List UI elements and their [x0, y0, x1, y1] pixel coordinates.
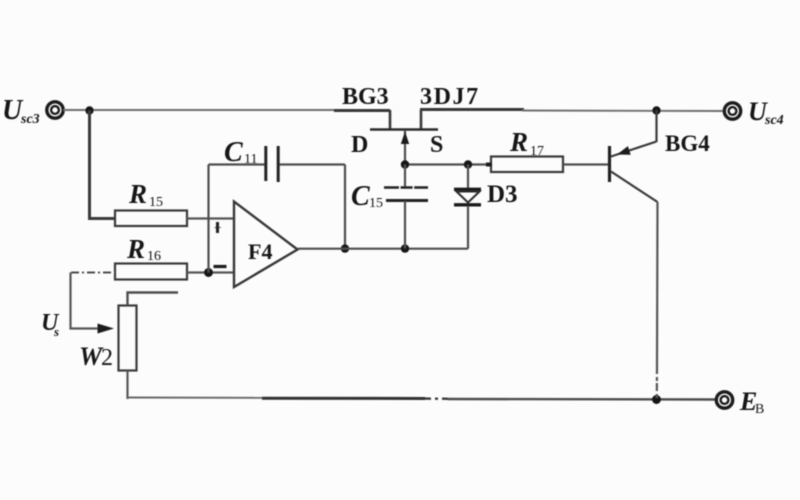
transistor BG3 drain lead [389, 110, 392, 130]
label C15 [351, 181, 383, 212]
capacitor C15 bottom stub [404, 201, 406, 249]
label Usc4 [748, 97, 784, 128]
transistor BG3 gate arrow [401, 132, 409, 145]
diode D3 cathode bar [454, 203, 481, 206]
terminal Usc3 [47, 102, 63, 118]
transistor BG4 emitter diagonal [611, 142, 657, 157]
wire top rail right (source to Usc4) [420, 110, 724, 112]
svg-text:C: C [351, 181, 370, 212]
svg-text:D: D [351, 132, 368, 158]
transistor BG3 channel bar [370, 128, 438, 131]
svg-text:15: 15 [149, 195, 163, 210]
wire bottom rail to EB [128, 398, 716, 400]
node BG4 emitter junction on rail [652, 106, 660, 114]
wire S node to R17 [405, 163, 491, 165]
wire top rail left (Usc3 to BG3 drain) [64, 109, 391, 112]
svg-text:S: S [430, 132, 443, 158]
terminal EB [716, 392, 732, 408]
transistor BG4 collector drop to rail [656, 202, 659, 399]
wire op-amp output line [298, 248, 469, 250]
node gate junction [401, 160, 409, 168]
svg-text:R: R [509, 127, 528, 157]
transistor BG4 emitter vertical to rail [655, 110, 657, 142]
label R17 [509, 127, 544, 159]
label - input [214, 265, 227, 268]
node feedback-output junction [341, 244, 349, 252]
transistor BG4 collector diagonal [611, 172, 658, 203]
label EB [739, 387, 764, 417]
svg-text:R: R [128, 179, 147, 209]
wire feedback top right segment [280, 163, 346, 165]
svg-text:2: 2 [101, 345, 113, 371]
diode D3 anode bar [454, 188, 481, 191]
capacitor C15 plates [384, 188, 428, 201]
capacitor C11 [266, 146, 278, 182]
wire feedback top left segment [209, 163, 265, 165]
svg-text:sc4: sc4 [764, 113, 784, 128]
svg-text:F4: F4 [248, 239, 272, 264]
wire feedback vertical (C11 to inverting node) [207, 165, 209, 273]
wire W2 top stub [128, 293, 179, 306]
svg-text:R: R [126, 234, 145, 264]
wire drop from top rail to R15 [90, 111, 116, 219]
wire Us input drop [71, 273, 100, 329]
svg-text:BG4: BG4 [665, 131, 710, 156]
transistor BG4 emitter arrow [617, 146, 631, 155]
node top-left junction [85, 106, 93, 114]
label R16 [126, 234, 161, 264]
terminal Usc4 [724, 103, 740, 119]
node D3 junction [464, 160, 472, 168]
label W2 [79, 342, 113, 371]
svg-text:C: C [224, 137, 243, 168]
label Usc3 [2, 95, 40, 127]
potentiometer W2 [119, 306, 137, 371]
resistor R15 [115, 211, 187, 227]
wire W2 bottom drop [126, 371, 128, 400]
transistor BG3 source lead [420, 110, 423, 130]
svg-text:15: 15 [369, 196, 383, 211]
svg-text:11: 11 [244, 152, 257, 167]
wire dash-dot input to R16 [71, 272, 115, 274]
svg-text:3DJ7: 3DJ7 [420, 84, 480, 110]
resistor R16 [115, 264, 187, 280]
node inverting input junction [204, 268, 213, 277]
svg-text:B: B [755, 402, 764, 417]
diode D3 triangle [457, 192, 480, 203]
wire R15 to op-amp noninverting input [187, 217, 233, 219]
svg-text:17: 17 [530, 144, 544, 159]
svg-text:sc3: sc3 [20, 112, 40, 127]
transistor BG3 gate lead [404, 130, 406, 165]
label Us [41, 310, 60, 339]
label + input [215, 222, 222, 233]
svg-text:s: s [53, 324, 59, 339]
transistor BG4 base bar [608, 146, 611, 182]
label R15 [128, 179, 163, 210]
svg-text:D3: D3 [487, 181, 518, 208]
wire R17 to BG4 base [563, 163, 608, 165]
wire feedback right drop to output [344, 165, 346, 249]
diode D3 top lead [467, 165, 469, 189]
capacitor C15 top stub [404, 165, 406, 188]
node BG4 collector to rail junction [652, 395, 661, 404]
svg-text:16: 16 [147, 249, 161, 264]
node C15-output junction [401, 244, 409, 252]
op-amp F4 [234, 202, 298, 288]
label C11 [224, 137, 257, 168]
resistor R17 [486, 157, 563, 173]
svg-text:BG3: BG3 [342, 84, 389, 110]
diode D3 bottom lead [467, 206, 469, 249]
wire R16 to inverting input junction [187, 271, 233, 273]
arrow Us wiper into W2 [98, 324, 115, 334]
